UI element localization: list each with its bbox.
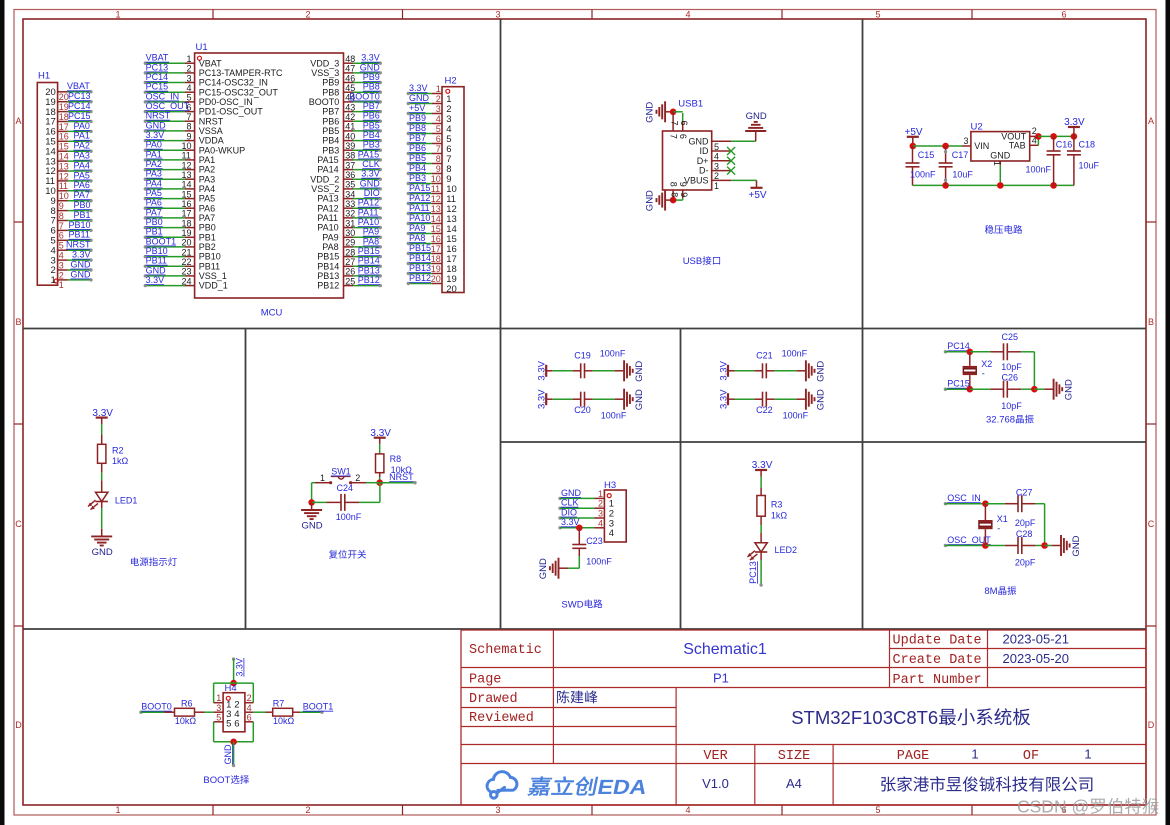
U1 pin 5 wire — [145, 101, 185, 103]
svg-text:GND: GND — [634, 361, 645, 382]
svg-text:32: 32 — [345, 209, 355, 219]
svg-text:8: 8 — [187, 122, 192, 132]
svg-text:+5V: +5V — [749, 190, 767, 201]
U1 pin 47 wire — [344, 72, 354, 74]
svg-text:2023-05-21: 2023-05-21 — [1003, 632, 1070, 647]
svg-text:22: 22 — [182, 257, 192, 267]
svg-text:Page: Page — [469, 672, 501, 687]
svg-text:11: 11 — [59, 181, 68, 191]
U1 pin 19 wire — [145, 236, 185, 238]
U1 pin 18 wire — [145, 227, 185, 229]
svg-text:3.3V: 3.3V — [537, 360, 548, 380]
svg-text:GND: GND — [223, 744, 233, 765]
H2 pin 5 wire — [409, 133, 433, 135]
svg-text:PB9: PB9 — [409, 113, 426, 123]
svg-text:4: 4 — [686, 9, 691, 19]
svg-text:VSS_3: VSS_3 — [311, 68, 339, 78]
svg-text:1kΩ: 1kΩ — [112, 456, 129, 466]
wire H4 bottom rect — [213, 722, 215, 742]
svg-text:SIZE: SIZE — [778, 749, 810, 764]
svg-text:9: 9 — [59, 201, 64, 211]
wire USB1 top shield — [673, 111, 683, 113]
wire USB1 VBUS to +5V — [731, 179, 756, 181]
MCU U1 symbol box — [195, 53, 344, 298]
U1 pin 28 wire — [344, 256, 354, 258]
H3 pin 2 wire — [558, 507, 561, 510]
svg-text:D+: D+ — [697, 156, 709, 166]
svg-text:1: 1 — [714, 181, 719, 191]
H1 pin 13 wire — [58, 160, 68, 162]
svg-text:GND: GND — [146, 265, 167, 275]
U1 pin 24 wire — [145, 285, 185, 287]
svg-text:PA8: PA8 — [363, 236, 379, 246]
U1 pin 29 wire — [344, 246, 354, 248]
EasyEDA logo text — [527, 775, 649, 798]
svg-text:PA9: PA9 — [322, 232, 338, 242]
H2 pin 1 marker ring — [446, 89, 450, 93]
svg-text:PA9: PA9 — [409, 223, 425, 233]
capacitor C15 — [912, 146, 914, 163]
wire to ground X1 — [1045, 545, 1052, 547]
svg-text:5: 5 — [59, 241, 64, 251]
svg-text:DIO: DIO — [561, 507, 577, 517]
power flag 3.3V at H4 rotated — [232, 657, 235, 660]
ground rail wire — [913, 184, 1074, 186]
svg-text:VSSA: VSSA — [199, 126, 223, 136]
svg-text:PC15-OSC32_OUT: PC15-OSC32_OUT — [199, 87, 279, 97]
svg-text:20: 20 — [182, 238, 192, 248]
net label GND rotated at H4 — [223, 744, 233, 765]
svg-text:PB11: PB11 — [199, 261, 220, 271]
svg-text:OF: OF — [1023, 749, 1039, 764]
H1 pin 6 wire — [58, 229, 68, 231]
wire OSC_OUT — [944, 544, 947, 547]
svg-text:PA4: PA4 — [146, 178, 162, 188]
H2 pin 6 wire — [409, 143, 433, 145]
svg-text:GND: GND — [71, 259, 92, 269]
svg-text:PA12: PA12 — [358, 198, 379, 208]
svg-text:C20: C20 — [574, 405, 591, 415]
wire USB1 bottom shield — [673, 199, 683, 201]
svg-text:16: 16 — [59, 132, 69, 142]
svg-text:PA2: PA2 — [199, 165, 215, 175]
svg-text:VDD_2: VDD_2 — [310, 174, 339, 184]
svg-text:GND: GND — [146, 120, 167, 130]
U1 pin 22 wire — [145, 265, 185, 267]
svg-text:BOOT1: BOOT1 — [303, 702, 334, 712]
svg-text:7: 7 — [436, 144, 441, 154]
svg-text:3.3V: 3.3V — [361, 169, 380, 179]
svg-text:100nF: 100nF — [1026, 164, 1052, 174]
svg-text:3.3V: 3.3V — [146, 130, 165, 140]
junction NRST node — [376, 479, 383, 486]
section divider horizontal y=442 — [501, 441, 1147, 443]
wire R6 to H4 pin 3 — [205, 711, 214, 713]
frame column ticks top — [212, 10, 214, 20]
svg-text:14: 14 — [182, 180, 192, 190]
svg-text:PA6: PA6 — [74, 180, 90, 190]
svg-text:2: 2 — [355, 473, 360, 483]
wire BOOT0 to R6 — [141, 711, 165, 713]
svg-text:PC14: PC14 — [68, 101, 91, 111]
svg-text:Update Date: Update Date — [893, 634, 982, 649]
svg-text:NRST: NRST — [146, 111, 171, 121]
svg-text:PB1: PB1 — [146, 227, 163, 237]
wire R8 to NRST node — [379, 473, 381, 477]
svg-text:PC15: PC15 — [146, 82, 169, 92]
U2 pin 2 stub — [1030, 135, 1039, 137]
U1 pin 9 wire — [145, 140, 185, 142]
svg-text:6: 6 — [436, 134, 441, 144]
svg-text:12: 12 — [182, 160, 192, 170]
svg-text:PA15: PA15 — [409, 183, 430, 193]
USB1 pin 8 stub — [672, 190, 674, 200]
svg-text:4: 4 — [247, 703, 252, 713]
svg-text:PA2: PA2 — [74, 141, 90, 151]
svg-text:PA12: PA12 — [409, 193, 430, 203]
svg-text:PB6: PB6 — [363, 111, 380, 121]
svg-text:3.3V: 3.3V — [361, 53, 380, 63]
svg-text:CLK: CLK — [561, 498, 579, 508]
svg-text:29: 29 — [345, 238, 355, 248]
U1 pin 27 wire — [344, 265, 354, 267]
svg-text:BOOT0: BOOT0 — [141, 702, 172, 712]
svg-text:PA5: PA5 — [199, 194, 215, 204]
svg-text:16: 16 — [431, 234, 441, 244]
svg-text:GND: GND — [645, 190, 656, 211]
svg-text:12: 12 — [59, 171, 69, 181]
svg-text:C15: C15 — [918, 150, 935, 160]
svg-text:PA12: PA12 — [317, 203, 338, 213]
svg-text:PB5: PB5 — [322, 126, 339, 136]
junction U2 GND rail — [997, 182, 1004, 189]
frame row ticks left — [14, 221, 23, 223]
H4 pin 3 stub — [214, 711, 224, 713]
svg-text:SW1: SW1 — [331, 466, 351, 476]
svg-text:PB8: PB8 — [363, 82, 380, 92]
svg-text:10: 10 — [59, 191, 69, 201]
svg-text:2: 2 — [59, 270, 64, 280]
svg-text:GND: GND — [561, 488, 582, 498]
svg-text:GND: GND — [645, 102, 656, 123]
H2 pin 8 wire — [409, 163, 433, 165]
svg-text:15: 15 — [431, 224, 441, 234]
U1 pin 37 wire — [344, 169, 354, 171]
svg-text:PA3: PA3 — [146, 169, 162, 179]
svg-text:X1: X1 — [997, 514, 1008, 524]
H1 pin 7 wire — [58, 220, 68, 222]
svg-text:PA15: PA15 — [317, 155, 338, 165]
U1 pin 10 wire — [145, 149, 185, 151]
svg-text:Part Number: Part Number — [893, 673, 982, 688]
svg-text:2: 2 — [247, 693, 252, 703]
svg-text:A: A — [16, 116, 22, 126]
U1 pin 25 wire — [344, 285, 354, 287]
U2 pin 1 number — [992, 161, 1002, 166]
svg-text:3.3V: 3.3V — [234, 658, 244, 677]
svg-text:PB8: PB8 — [409, 123, 426, 133]
regulator block caption — [985, 225, 994, 234]
svg-text:4: 4 — [686, 805, 691, 815]
svg-text:VIN: VIN — [974, 141, 989, 151]
capacitor C24 — [312, 501, 327, 503]
svg-text:28: 28 — [345, 247, 355, 257]
capacitor C28 — [985, 545, 1004, 547]
wire C19 to ground — [593, 370, 615, 372]
wire H4 top rect — [214, 682, 254, 684]
svg-text:17: 17 — [182, 209, 192, 219]
wire OSC_IN — [944, 502, 947, 505]
svg-text:GND: GND — [409, 93, 430, 103]
svg-text:D: D — [15, 720, 22, 730]
svg-text:39: 39 — [345, 141, 355, 151]
wire C21 to ground — [774, 370, 796, 372]
H4 pin 4 stub — [245, 711, 253, 713]
ground at X2 — [1044, 388, 1053, 390]
svg-text:PC13-TAMPER-RTC: PC13-TAMPER-RTC — [199, 68, 283, 78]
capacitor C17 — [945, 146, 947, 163]
U1 pin 1 wire — [145, 62, 185, 64]
black strip right edge — [1166, 0, 1170, 825]
wire C25 to C26 junction — [1033, 352, 1035, 389]
connector H4 symbol box — [223, 693, 245, 732]
power flag 3.3V at C21 — [727, 365, 729, 377]
svg-text:1: 1 — [992, 161, 1002, 166]
svg-text:PA10: PA10 — [317, 223, 338, 233]
USB1 pin 9 number — [679, 192, 689, 197]
USB1 pin 8 number — [669, 192, 679, 197]
capacitor C22 — [754, 398, 762, 400]
svg-text:40: 40 — [345, 131, 355, 141]
svg-text:PA8: PA8 — [409, 233, 425, 243]
EasyEDA logo cloud icon — [487, 772, 517, 798]
svg-text:A: A — [1148, 116, 1154, 126]
U1 pin 2 wire — [145, 72, 185, 74]
U1 pin 30 wire — [344, 236, 354, 238]
ground at USB1 pin 5 — [755, 131, 757, 141]
svg-text:C19: C19 — [574, 351, 591, 361]
wire SW1 pin1 down — [311, 483, 313, 503]
watermark CSDN — [1017, 797, 1159, 817]
junction H4 bottom — [230, 739, 237, 746]
svg-text:17: 17 — [59, 122, 69, 132]
svg-text:PA0: PA0 — [146, 140, 162, 150]
section divider horizontal y=328 — [23, 328, 1146, 330]
svg-text:PB14: PB14 — [409, 253, 431, 263]
svg-text:GND: GND — [816, 361, 827, 382]
USB1 pin 7 number — [669, 121, 679, 126]
svg-text:6: 6 — [679, 121, 689, 126]
crystal X1 — [984, 504, 986, 520]
svg-text:2: 2 — [598, 499, 603, 509]
svg-text:6: 6 — [1062, 9, 1067, 19]
U2 pin 3 stub — [962, 145, 971, 147]
U1 pin 16 wire — [145, 207, 185, 209]
svg-text:H1: H1 — [38, 71, 50, 82]
svg-text:+5V: +5V — [409, 103, 425, 113]
H2 pin 3 wire — [409, 113, 433, 115]
frame column ticks bottom — [212, 805, 214, 815]
junction 8M caps to ground — [1041, 542, 1048, 549]
title block outline — [461, 630, 1146, 805]
svg-text:V1.0: V1.0 — [702, 776, 729, 791]
ground at C22 — [796, 398, 806, 400]
capacitor C21 — [754, 370, 762, 372]
H1 pin 12 wire — [58, 170, 68, 172]
H4 pin 1 stub — [214, 702, 224, 704]
U1 pin 46 wire — [344, 82, 354, 84]
svg-text:13: 13 — [431, 204, 441, 214]
H2 pin 19 wire — [409, 273, 433, 275]
svg-text:100nF: 100nF — [782, 349, 808, 359]
svg-text:2: 2 — [436, 94, 441, 104]
svg-text:TAB: TAB — [1009, 141, 1026, 151]
svg-text:PA5: PA5 — [146, 188, 162, 198]
svg-text:C17: C17 — [952, 150, 969, 160]
svg-text:100nF: 100nF — [601, 411, 627, 421]
svg-text:48: 48 — [345, 54, 355, 64]
wire R3 to LED2 — [760, 516, 762, 525]
svg-text:10: 10 — [431, 174, 441, 184]
svg-text:R8: R8 — [390, 454, 402, 464]
wire 3.3V to C19 — [553, 370, 573, 372]
svg-text:PB11: PB11 — [146, 256, 167, 266]
U2 pin 1 GND stub — [999, 161, 1001, 165]
resistor R7 — [266, 711, 273, 713]
U1 pin 43 wire — [344, 111, 354, 113]
U1 pin 8 wire — [145, 130, 185, 132]
svg-text:PA4: PA4 — [199, 184, 215, 194]
H2 pin 13 wire — [409, 213, 433, 215]
connector H3 symbol box — [604, 490, 626, 542]
svg-text:4: 4 — [436, 114, 441, 124]
U1 pin 33 wire — [344, 207, 354, 209]
U1 pin 12 wire — [145, 169, 185, 171]
svg-text:5: 5 — [876, 805, 881, 815]
svg-text:PA1: PA1 — [74, 131, 90, 141]
svg-text:35: 35 — [345, 180, 355, 190]
wire PC15 — [944, 388, 947, 391]
section divider vertical x=245 — [245, 329, 247, 630]
H3 pin 4 wire — [558, 526, 561, 529]
svg-text:PA6: PA6 — [146, 198, 162, 208]
svg-text:PB4: PB4 — [322, 136, 339, 146]
svg-text:2023-05-20: 2023-05-20 — [1003, 651, 1070, 666]
svg-text:PA9: PA9 — [363, 227, 379, 237]
power flag +5V at USB1 VBUS — [756, 180, 758, 187]
USB1 pin 6 name — [678, 134, 688, 139]
H2 pin 14 wire — [409, 223, 433, 225]
svg-text:PA0-WKUP: PA0-WKUP — [199, 145, 245, 155]
U1 pin 26 wire — [344, 275, 354, 277]
svg-text:8: 8 — [669, 192, 679, 197]
svg-text:19: 19 — [431, 264, 441, 274]
svg-text:5: 5 — [876, 9, 881, 19]
svg-text:1: 1 — [116, 805, 121, 815]
H1 pin 4 wire — [58, 249, 68, 251]
junction C17 bottom rail — [942, 182, 949, 189]
USB1 pin 4 stub — [712, 150, 731, 152]
svg-text:10pF: 10pF — [1001, 362, 1022, 372]
svg-text:PB5: PB5 — [363, 120, 380, 130]
svg-text:100nF: 100nF — [910, 170, 936, 180]
svg-text:PC14-OSC32_IN: PC14-OSC32_IN — [199, 78, 268, 88]
svg-text:B: B — [16, 317, 22, 327]
svg-text:7: 7 — [669, 121, 679, 126]
svg-text:OSC_OUT: OSC_OUT — [146, 101, 190, 111]
svg-text:3.3V: 3.3V — [719, 389, 730, 409]
svg-text:PA5: PA5 — [74, 170, 90, 180]
junction at C16 top — [1050, 133, 1057, 140]
title block vertical lines — [552, 630, 554, 764]
H2 pin 7 wire — [409, 153, 433, 155]
wire to ground X2 — [1034, 388, 1044, 390]
svg-text:5: 5 — [216, 712, 221, 722]
svg-text:MCU: MCU — [261, 308, 283, 319]
svg-text:PC13: PC13 — [748, 561, 758, 584]
USB1 pin 9 name — [678, 182, 688, 187]
svg-text:PB7: PB7 — [409, 133, 426, 143]
wire C23 to ground — [568, 567, 579, 569]
svg-text:PA11: PA11 — [409, 203, 430, 213]
svg-text:43: 43 — [345, 102, 355, 112]
svg-text:VDD_1: VDD_1 — [199, 281, 228, 291]
svg-text:PB10: PB10 — [146, 246, 168, 256]
junction at C17 top — [942, 143, 949, 150]
junction OSC_IN/X1 — [982, 500, 989, 507]
USB1 pin 6 stub — [682, 113, 684, 121]
svg-text:STM32F103C8T6: STM32F103C8T6 — [791, 707, 938, 728]
title block horizontal lines — [889, 648, 1146, 650]
svg-text:PC15: PC15 — [947, 379, 970, 389]
svg-text:PB7: PB7 — [363, 101, 380, 111]
U1 pin 40 wire — [344, 140, 354, 142]
svg-text:Schematic: Schematic — [469, 643, 542, 658]
svg-text:5: 5 — [436, 124, 441, 134]
svg-text:PA1: PA1 — [199, 155, 215, 165]
company name — [881, 777, 896, 792]
wire C22 to ground — [774, 398, 796, 400]
svg-text:1: 1 — [598, 489, 603, 499]
svg-text:PC15: PC15 — [68, 111, 91, 121]
drawed value name — [557, 690, 569, 703]
U1 pin 35 wire — [344, 188, 354, 190]
svg-text:37: 37 — [345, 160, 355, 170]
H2 pin 17 wire — [409, 253, 433, 255]
svg-text:H2: H2 — [445, 76, 457, 87]
svg-text:PA10: PA10 — [409, 213, 430, 223]
svg-text:PA1: PA1 — [146, 149, 162, 159]
svg-text:2: 2 — [187, 64, 192, 74]
H1 pin 8 wire — [58, 210, 68, 212]
regulator U2 symbol box — [971, 132, 1030, 161]
wire 3.3V to C22 — [735, 398, 755, 400]
svg-text:27: 27 — [345, 257, 355, 267]
resistor R3 — [757, 496, 765, 517]
svg-text:VBAT: VBAT — [199, 58, 222, 68]
svg-text:PA3: PA3 — [199, 174, 215, 184]
svg-text:C26: C26 — [1002, 372, 1019, 382]
svg-text:4: 4 — [59, 251, 64, 261]
wire VOUT to 3.3V node — [1038, 135, 1053, 137]
svg-text:1: 1 — [216, 693, 221, 703]
svg-text:PA11: PA11 — [317, 213, 338, 223]
capacitor C18 — [1073, 136, 1075, 151]
svg-text:10uF: 10uF — [1079, 161, 1100, 171]
svg-text:3: 3 — [59, 260, 64, 270]
H2 pin 10 wire — [409, 183, 433, 185]
svg-text:4: 4 — [598, 518, 603, 528]
